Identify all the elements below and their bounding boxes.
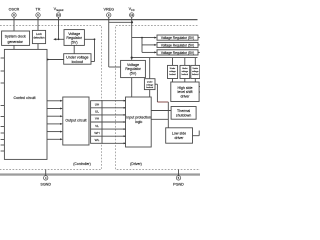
svg-text:(Driver): (Driver) <box>130 162 142 166</box>
svg-text:OSCR: OSCR <box>9 8 20 12</box>
svg-text:Under: Under <box>182 68 188 70</box>
svg-text:Output circuit: Output circuit <box>65 119 86 123</box>
svg-text:voltage: voltage <box>192 70 199 73</box>
svg-text:Under: Under <box>170 68 176 70</box>
svg-text:Low side: Low side <box>172 131 186 135</box>
svg-text:Voltage Regulator (5V): Voltage Regulator (5V) <box>161 43 194 47</box>
svg-text:TR: TR <box>36 8 41 12</box>
svg-text:voltage: voltage <box>146 83 154 86</box>
svg-text:(5V): (5V) <box>130 72 137 76</box>
svg-text:lockout: lockout <box>192 73 199 76</box>
svg-text:under: under <box>147 81 153 84</box>
svg-text:Under: Under <box>193 68 199 70</box>
svg-text:driver: driver <box>181 95 191 99</box>
svg-text:logic: logic <box>135 120 143 124</box>
svg-text:Voltage Regulator (5V): Voltage Regulator (5V) <box>161 51 194 55</box>
svg-text:generator: generator <box>8 40 24 44</box>
svg-text:detection: detection <box>34 35 45 39</box>
svg-text:Regulator: Regulator <box>125 67 141 71</box>
svg-text:VL: VL <box>95 124 99 128</box>
svg-text:UL: UL <box>95 110 99 114</box>
svg-text:Regulator: Regulator <box>66 36 82 40</box>
svg-text:Control circuit: Control circuit <box>14 96 36 100</box>
svg-text:Thermal: Thermal <box>177 109 190 113</box>
svg-text:driver: driver <box>175 136 185 140</box>
svg-text:lockout: lockout <box>169 73 176 76</box>
svg-text:lockout: lockout <box>182 73 189 76</box>
svg-text:Lock: Lock <box>36 32 42 36</box>
svg-text:VREG: VREG <box>104 8 115 12</box>
svg-text:Voltage: Voltage <box>127 63 139 67</box>
svg-text:shutdown: shutdown <box>176 114 191 118</box>
svg-text:System clock: System clock <box>5 35 26 39</box>
svg-text:voltage: voltage <box>182 70 189 73</box>
svg-text:(5V): (5V) <box>71 41 78 45</box>
svg-text:WL: WL <box>95 138 100 142</box>
svg-text:lockout: lockout <box>72 60 83 64</box>
svg-text:PGND: PGND <box>173 182 184 186</box>
svg-text:level shift: level shift <box>178 90 193 94</box>
svg-text:lockout: lockout <box>146 86 153 89</box>
svg-text:(Controller): (Controller) <box>73 162 91 166</box>
svg-text:VH: VH <box>95 117 99 121</box>
svg-text:Voltage Regulator (5V): Voltage Regulator (5V) <box>161 36 194 40</box>
svg-text:UH: UH <box>95 103 99 107</box>
svg-text:voltage: voltage <box>169 70 176 73</box>
svg-text:SGND: SGND <box>40 182 51 186</box>
svg-text:WH: WH <box>94 131 99 135</box>
svg-text:Input protection: Input protection <box>126 116 151 120</box>
